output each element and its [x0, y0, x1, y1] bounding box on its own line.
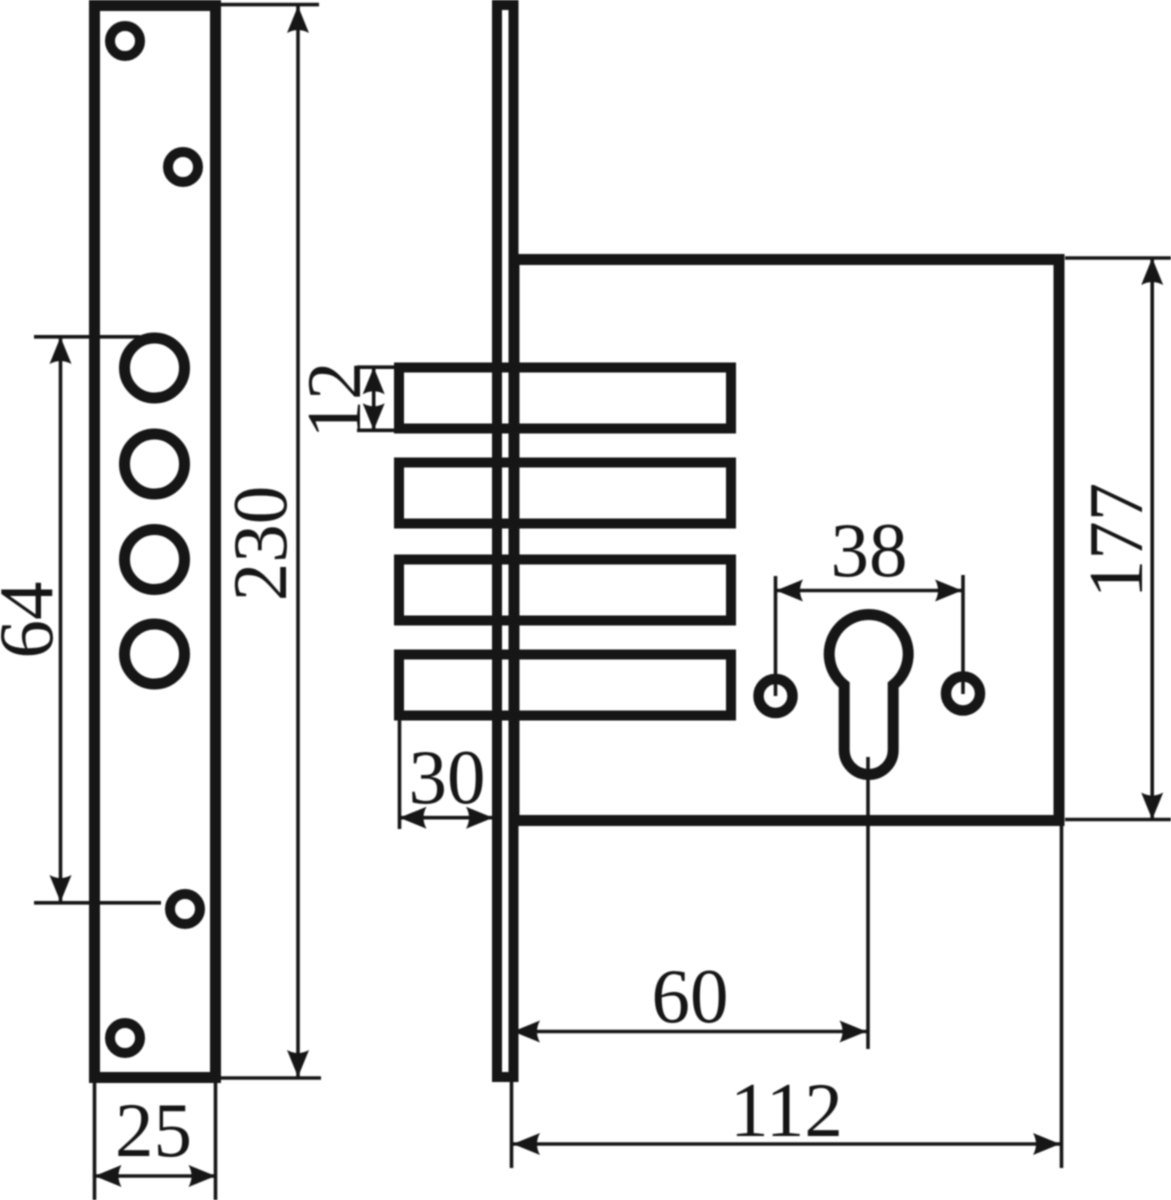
arrow 177 bottom — [1141, 793, 1163, 820]
ext 12 bottom — [357, 428, 404, 432]
dim line 60 — [513, 1030, 867, 1034]
fixing hole left — [759, 679, 793, 713]
svg-text:30: 30 — [409, 734, 486, 820]
arrow 25 right — [189, 1165, 216, 1187]
arrow 64 bottom — [50, 875, 72, 902]
svg-text:38: 38 — [831, 507, 908, 593]
deadbolt 1 — [399, 368, 731, 429]
svg-text:60: 60 — [652, 953, 729, 1039]
euro cylinder keyhole — [829, 615, 908, 775]
arrow 12 bottom — [363, 403, 385, 430]
keyhole centerline ext for 60 — [866, 757, 870, 1049]
ext 177 bottom — [1065, 818, 1171, 822]
dim line 177 — [1150, 258, 1154, 820]
arrow 25 left — [95, 1165, 122, 1187]
arrow 12 top — [363, 367, 385, 394]
arrow 112 left — [513, 1133, 540, 1155]
ext 12 top — [357, 365, 400, 369]
bolt hole circle 1 — [125, 338, 185, 398]
dim line 30 — [400, 816, 494, 820]
screw hole bottom-left — [110, 1023, 140, 1053]
arrow 60 right — [840, 1021, 867, 1043]
screw hole top-left — [110, 26, 140, 56]
svg-text:177: 177 — [1073, 483, 1159, 599]
dimension texts — [0, 362, 1159, 1174]
fixing hole right — [946, 677, 980, 711]
ext 30 left — [398, 719, 402, 829]
dim line 25 — [95, 1174, 216, 1178]
ext 64 top — [34, 335, 140, 339]
ext 25 right — [214, 1083, 218, 1200]
arrow 60 left — [513, 1021, 540, 1043]
faceplate front view — [95, 6, 216, 1078]
ext 60/112 left — [510, 1082, 514, 1168]
svg-text:112: 112 — [730, 1067, 843, 1153]
screw hole lower-right — [170, 894, 200, 924]
ext 230 bottom — [221, 1076, 321, 1080]
deadbolt 4 — [399, 655, 731, 716]
ext 112 right — [1060, 826, 1064, 1168]
svg-text:64: 64 — [0, 582, 69, 659]
arrow 64 top — [50, 337, 72, 364]
arrow 112 right — [1033, 1133, 1060, 1155]
ext 25 left — [93, 1083, 97, 1200]
arrow 230 bottom — [287, 1050, 309, 1077]
svg-text:25: 25 — [115, 1087, 192, 1173]
arrow 38 left — [776, 580, 803, 602]
deadbolt 2 — [399, 463, 731, 524]
bolt hole circle 2 — [125, 434, 185, 494]
ext 38 left — [774, 576, 778, 696]
deadbolt 3 — [399, 560, 731, 621]
bolt hole circle 4 — [125, 624, 185, 684]
bolt hole circle 3 — [125, 530, 185, 590]
screw hole upper-right — [168, 152, 198, 182]
dim line 38 — [776, 589, 962, 593]
arrow 30 right — [466, 807, 493, 829]
arrow 30 left — [400, 807, 427, 829]
dim line 12 — [372, 367, 376, 430]
arrow 230 top — [287, 6, 309, 33]
ext 177 top — [1065, 256, 1171, 260]
ext 64 bottom — [34, 901, 161, 905]
svg-text:12: 12 — [291, 362, 377, 439]
dim line 64 — [59, 337, 63, 902]
lock body outline — [514, 260, 1059, 821]
arrow 38 right — [935, 580, 962, 602]
svg-text:230: 230 — [217, 486, 303, 602]
arrow 177 top — [1141, 258, 1163, 285]
ext 230 top — [221, 3, 319, 7]
dim line 112 — [513, 1142, 1060, 1146]
lock faceplate edge view strip — [497, 5, 514, 1077]
ext 38 right — [961, 575, 965, 694]
dim line 230 — [296, 6, 300, 1077]
